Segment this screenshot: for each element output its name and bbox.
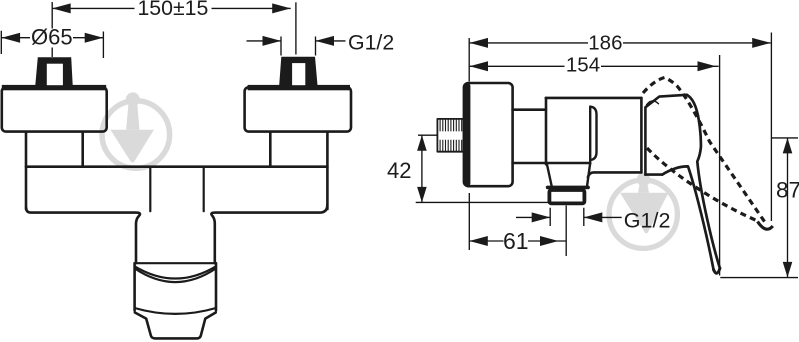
outlet right edge <box>587 164 590 186</box>
svg-text:186: 186 <box>588 31 622 54</box>
body bottom with corners and neck fillets <box>26 208 140 263</box>
dim Ø65 line <box>1 37 103 39</box>
svg-text:61: 61 <box>503 228 529 254</box>
handle blade right edge <box>687 95 720 268</box>
left stem / body left edge <box>25 132 28 209</box>
rear bottom <box>588 172 642 177</box>
handle tip <box>714 268 720 273</box>
body top line <box>26 165 327 168</box>
body right edge <box>640 98 643 172</box>
wall extension line <box>468 38 470 82</box>
inner tube verticals <box>149 168 151 211</box>
87 bottom extension <box>720 277 798 279</box>
left flange bar <box>2 85 106 90</box>
side view dimensions <box>416 33 798 278</box>
nipple outline <box>437 119 463 152</box>
body left edge <box>545 98 548 164</box>
outlet left taper <box>547 165 552 186</box>
svg-text:Ø65: Ø65 <box>31 25 73 50</box>
escutcheon thick left edge <box>464 83 471 186</box>
G1/2 ticks <box>550 208 584 226</box>
step collar <box>548 186 589 190</box>
dim 150±15 line <box>52 7 291 9</box>
dim 154 line <box>470 65 719 67</box>
svg-text:G1/2: G1/2 <box>348 30 394 54</box>
186 extension right <box>770 33 772 222</box>
cartridge bulge <box>590 107 596 164</box>
spout axis <box>565 206 567 257</box>
G1/2 top leader lines <box>247 40 346 42</box>
handle head <box>645 95 686 175</box>
arrows front view <box>52 3 70 13</box>
right stem / body right edge <box>326 132 329 209</box>
svg-text:87: 87 <box>776 177 799 202</box>
svg-text:42: 42 <box>387 158 411 183</box>
dim 61 line <box>469 240 566 242</box>
61 left extension <box>468 193 470 250</box>
dim 42 line <box>421 135 423 202</box>
svg-text:G1/2: G1/2 <box>624 209 671 233</box>
dashed handle tip cap <box>758 222 773 230</box>
arrows side view <box>470 38 489 48</box>
axis right fitting <box>295 2 297 54</box>
spout cup <box>135 262 216 264</box>
right flange bar <box>248 85 350 90</box>
dim Ø65 extensions <box>1 31 103 58</box>
axis left fitting <box>51 2 53 57</box>
watermark 2 (right view) <box>609 173 677 249</box>
escutcheon disc <box>464 83 513 186</box>
watermark 1 (left view) <box>102 92 170 168</box>
87 top extension <box>771 137 798 139</box>
nozzle <box>549 190 584 203</box>
right escutcheon body <box>245 87 351 131</box>
left escutcheon body <box>2 87 107 131</box>
right nipple <box>279 57 317 85</box>
union nut top/bottom <box>513 108 546 111</box>
nipple threads <box>440 119 462 151</box>
42 bottom extension <box>416 201 550 203</box>
G1/2 top ticks <box>281 37 316 56</box>
front view dimensions <box>1 2 345 58</box>
dim 87 line <box>787 138 789 278</box>
left nipple <box>35 57 72 85</box>
svg-text:150±15: 150±15 <box>137 0 208 20</box>
handle blade left edge <box>662 166 713 269</box>
154 extension right <box>719 55 721 276</box>
dashed handle open position <box>643 78 767 225</box>
nipple axis stub <box>418 134 437 136</box>
cup foot <box>135 313 216 339</box>
dim 186 line <box>470 42 771 44</box>
svg-text:154: 154 <box>566 53 600 76</box>
valve body top <box>546 97 642 100</box>
G1/2 leader lines <box>516 216 622 218</box>
